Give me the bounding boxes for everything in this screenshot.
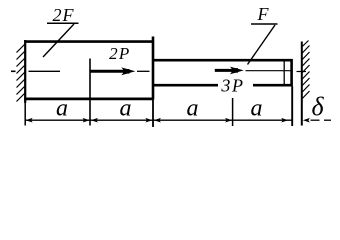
left wall hatching [17, 44, 26, 102]
force arrow 2P head [121, 67, 135, 75]
bar end extension line [291, 86, 293, 126]
dimension line [25, 119, 291, 121]
large bar segment top edge [24, 40, 153, 43]
dimension arrows at first shared boundary [83, 118, 90, 123]
svg-text:a: a [251, 95, 263, 121]
force arrow 2P shaft [90, 70, 125, 73]
force arrow 3P shaft [215, 69, 233, 72]
extension line between third and fourth a [232, 98, 234, 126]
svg-text:a: a [120, 95, 132, 121]
2F leader line [43, 24, 74, 57]
force arrow 3P head [230, 67, 244, 75]
svg-text:a: a [56, 95, 68, 121]
F underline [251, 23, 278, 25]
svg-text:2P: 2P [109, 44, 130, 63]
centerline dash left of wall [11, 70, 16, 72]
large bar segment bottom edge [24, 98, 153, 101]
left wall extension line to dimension [24, 103, 26, 126]
dimension arrow at bar end pointing right [281, 118, 288, 123]
svg-text:2F: 2F [53, 5, 75, 25]
svg-text:δ: δ [311, 92, 324, 121]
centerline long dash in large bar [29, 70, 61, 72]
svg-text:3P: 3P [220, 76, 244, 96]
2F underline [47, 22, 79, 24]
dimension arrow at left wall pointing left [26, 118, 33, 123]
bar end cap [290, 59, 293, 86]
centerline in small bar [246, 70, 292, 72]
small bar segment bottom edge [153, 84, 293, 87]
svg-text:F: F [257, 4, 270, 24]
delta dimension arrow pointing left at wall [303, 118, 310, 123]
right wall hatching [302, 41, 309, 99]
step shoulder line [152, 37, 155, 100]
delta dimension tail dashes [311, 119, 320, 121]
white patch behind 3P label [218, 79, 253, 92]
centerline dash before step [137, 70, 150, 72]
small bar segment top edge [153, 59, 293, 62]
F leader line [248, 25, 276, 65]
svg-text:a: a [187, 95, 199, 121]
extension line between first and second a [89, 59, 91, 126]
dimension arrow at third boundary pointing right [225, 118, 232, 123]
dimension arrows at step boundary [145, 118, 152, 123]
left wall line [24, 40, 26, 103]
thin section line near bar end [283, 60, 285, 86]
centerline dash through right wall [297, 71, 307, 73]
right wall line [301, 42, 303, 126]
step extension line to dimension [152, 100, 154, 128]
